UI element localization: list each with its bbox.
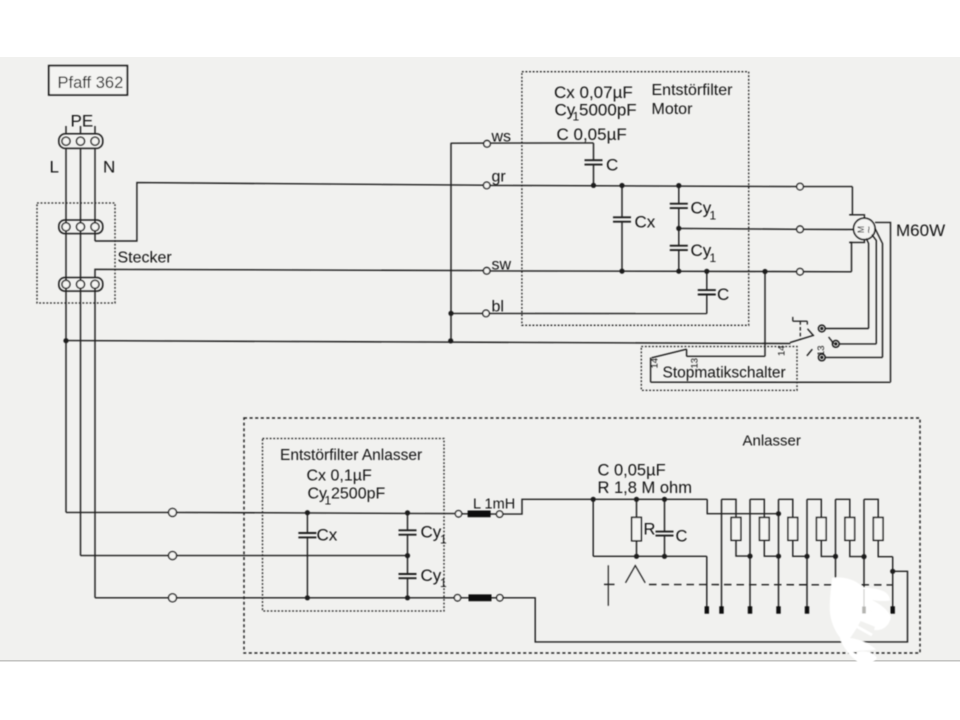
contact terminal 5 [833, 606, 837, 613]
capacitor Cx Anlasser [298, 513, 337, 598]
label Entstoerfilter Motor values [554, 83, 637, 144]
junction C top [662, 497, 667, 502]
wire row2 to Cy1 midpoint [177, 555, 408, 557]
wire sw feed from lower plug contact [95, 269, 484, 277]
junction C bottom [662, 554, 667, 559]
capacitor Cy1 lower (mid-sw) [670, 228, 717, 271]
inductor L 1mH [455, 496, 515, 517]
svg-text:Motor: Motor [652, 101, 694, 118]
wire ws-bl tie (vertical) [450, 143, 452, 341]
capacitor Cy1 Anlasser upper [399, 513, 448, 556]
wire tap 3 [778, 499, 780, 607]
contact bullseye 3 with label 13 [816, 345, 883, 360]
svg-text:ws: ws [491, 129, 512, 146]
wire tap 5 [835, 499, 837, 607]
svg-text:Pfaff 362: Pfaff 362 [58, 74, 124, 92]
wire bl [451, 312, 707, 314]
label Entstoerfilter Anlasser [280, 447, 422, 508]
wire motor lead 2 [872, 235, 877, 344]
plug contact strip lower [59, 278, 103, 292]
wiper arm [608, 565, 645, 606]
label Pfaff 362 [49, 66, 128, 95]
node row1 connector [169, 508, 177, 516]
node PE (mains terminal strip) [50, 112, 116, 177]
node sw [483, 257, 511, 274]
wire L feed to switch blade [66, 341, 790, 344]
wire gr feed to motor filter [490, 185, 853, 186]
svg-text:5000pF: 5000pF [579, 101, 637, 120]
wire sw drop [764, 272, 766, 357]
switch blade speed contact 2 [829, 337, 834, 344]
svg-text:Entstörfilter Anlasser: Entstörfilter Anlasser [280, 447, 422, 464]
node row3 connector [169, 594, 177, 602]
node bl [483, 298, 504, 316]
wire motor lead 4 (terminal 14) [875, 222, 891, 382]
capacitor Cy1 upper (gr-mid) [670, 186, 717, 229]
wire mid tap to motor [679, 228, 854, 229]
svg-text:Stopmatikschalter: Stopmatikschalter [663, 365, 786, 382]
wire motor lead 1 [866, 238, 868, 328]
wire row1 from L [66, 511, 169, 513]
wire RC bottom to contact 0 [706, 556, 708, 607]
node motor connector sw [797, 268, 804, 275]
wire sw through filter to motor [490, 270, 852, 273]
plug contact strip upper [59, 220, 103, 234]
capacitor C parallel [656, 499, 688, 556]
wire row1 to inductor [177, 512, 455, 513]
wire RC bottom [593, 555, 707, 557]
svg-text:1: 1 [440, 576, 447, 590]
contact terminal 6 [862, 606, 866, 613]
wire contact 13 to sw drop [687, 355, 765, 357]
svg-text:1: 1 [440, 532, 447, 546]
junction R bottom [634, 554, 639, 559]
node motor connector gr [797, 183, 804, 190]
resistor bank R5 [836, 499, 865, 556]
svg-text:1: 1 [710, 209, 717, 223]
junction R4 to tap5 [833, 554, 838, 559]
junction R3 to tap4 [804, 554, 809, 559]
svg-text:Cy: Cy [421, 566, 442, 585]
svg-text:PE: PE [71, 112, 94, 131]
svg-text:C: C [606, 155, 618, 174]
wire row1 jog up to RC line [503, 499, 707, 514]
svg-text:R: R [644, 521, 656, 539]
svg-text:bl: bl [492, 298, 504, 315]
switch blade speed contact 1 [790, 329, 813, 343]
contact terminal 0 [705, 606, 709, 613]
resistor bank R6 [864, 499, 893, 556]
svg-text:1: 1 [710, 251, 717, 265]
capacitor Cx (gr-sw) [613, 186, 656, 272]
wire PE (earth, down the left side) [80, 148, 82, 555]
wire row3 from N [94, 289, 96, 598]
junction Cx on sw [619, 269, 624, 274]
junction R1 to tap2 [747, 554, 752, 559]
wire N jog to gr feed [95, 183, 484, 241]
wire tap 7 [892, 557, 894, 607]
wire row3 return path [503, 571, 908, 642]
junction R5 to tap6 [861, 554, 866, 559]
svg-text:~: ~ [861, 226, 876, 234]
node gr [483, 168, 506, 188]
svg-text:Cx 0,1µF: Cx 0,1µF [307, 468, 372, 485]
junction return line [890, 569, 895, 574]
junction bl tap [448, 311, 453, 316]
svg-text:C: C [717, 285, 729, 304]
node row2 connector [169, 552, 177, 560]
wire motor lead 3 [875, 228, 883, 358]
svg-text:13: 13 [690, 358, 701, 369]
push button actuator [793, 317, 808, 339]
connector Stecker (dashed outline) [37, 203, 115, 303]
svg-text:C 0,05µF: C 0,05µF [557, 125, 627, 144]
junction Cy1 lower on sw [676, 269, 681, 274]
wire N (neutral from strip into plug) [94, 148, 96, 241]
svg-text:2500pF: 2500pF [331, 486, 385, 503]
capacitor C (ws-gr) [585, 143, 619, 185]
contact terminal 4 [805, 606, 809, 613]
junction C on gr [591, 183, 596, 188]
svg-text:14: 14 [650, 358, 661, 369]
wire ws [451, 142, 594, 144]
wire tap 1 [721, 499, 723, 607]
resistor bank R1 [722, 499, 751, 556]
Entstoerfilter Anlasser box (dashed) [263, 439, 445, 612]
junction R2 to tap3 [776, 554, 781, 559]
svg-text:L 1mH: L 1mH [473, 496, 515, 512]
svg-text:gr: gr [492, 168, 507, 185]
switch Stopmatik contact 13 [687, 349, 701, 368]
svg-text:C 0,05µF: C 0,05µF [598, 462, 666, 480]
node ws [484, 129, 511, 148]
inductor row3 [454, 594, 503, 601]
junction on wire L [63, 338, 68, 343]
wire tap 4 [806, 499, 808, 607]
svg-text:sw: sw [492, 257, 512, 274]
svg-text:R 1,8 M ohm: R 1,8 M ohm [598, 479, 692, 497]
watermark dolphin [830, 578, 891, 669]
wire tap 6 [863, 499, 865, 607]
Stopmatikschalter box (dashed) [641, 347, 797, 391]
wire sw elbow into motor [849, 240, 864, 272]
junction Cx on gr [619, 183, 624, 188]
label C 0,05uF / R 1,8 M ohm [598, 462, 692, 498]
junction Cx top [305, 510, 310, 515]
svg-text:Cy: Cy [421, 522, 442, 541]
Anlasser box (dashed) [244, 418, 920, 653]
contact terminal 2 [748, 606, 752, 613]
node motor connector mid [797, 226, 804, 233]
junction Cy1 on gr [676, 183, 681, 188]
switch Stopmatik terminal 14 [650, 358, 661, 383]
contact bullseye 2 [832, 341, 876, 348]
wire row3 to inductor 2 [177, 597, 455, 599]
junction feed at tap 3 [776, 511, 781, 516]
svg-text:13: 13 [816, 345, 827, 356]
junction L line tap [448, 338, 453, 343]
wire terminal 14 line to motor [651, 345, 891, 382]
wire gr elbow into motor [849, 187, 864, 219]
junction Cy1 lower bottom [405, 595, 410, 600]
svg-text:N: N [103, 157, 115, 176]
svg-text:Anlasser: Anlasser [743, 433, 801, 450]
wire feed step down to tap 3 [707, 499, 778, 513]
wire tap 2 [749, 499, 751, 607]
svg-text:Entstörfilter: Entstörfilter [652, 82, 734, 99]
svg-text:M60W: M60W [896, 221, 945, 240]
svg-text:Cx: Cx [317, 526, 338, 545]
resistor bank R2 [750, 499, 779, 556]
svg-text:Cx 0,07µF: Cx 0,07µF [554, 83, 633, 102]
wire row2 from PE [81, 555, 169, 557]
contact terminal 3 [776, 606, 780, 613]
wiper travel dashed line [604, 583, 615, 585]
capacitor C (sw-bl) [698, 271, 729, 313]
junction Cy1 midpoint [676, 226, 681, 231]
wire RC left side [592, 499, 594, 556]
resistor bank R4 [807, 499, 836, 556]
capacitor Cy1 Anlasser lower [399, 556, 448, 598]
junction C2 on sw [704, 269, 709, 274]
junction RC top left [591, 497, 596, 502]
label Entstoerfilter Motor title [652, 82, 734, 118]
junction Cx bottom [305, 595, 310, 600]
switch Stopmatik blade [652, 349, 687, 358]
resistor bank R3 [779, 499, 808, 556]
svg-text:Stecker: Stecker [118, 249, 173, 266]
contact terminal 7 [891, 606, 895, 613]
Entstoerfilter Motor box (dashed) [522, 72, 749, 326]
svg-text:Cx: Cx [635, 212, 656, 231]
svg-text:14: 14 [777, 345, 788, 356]
junction R top [634, 497, 639, 502]
watermark shading slits [863, 589, 865, 612]
svg-text:L: L [50, 157, 59, 176]
resistor R [632, 499, 656, 556]
motor M60W [854, 218, 946, 240]
junction sw drop [762, 269, 767, 274]
contact bullseye 1 [818, 325, 868, 332]
junction Cy1 mid row2 [405, 553, 410, 558]
junction Cy1 top [405, 510, 410, 515]
svg-text:C: C [676, 527, 688, 545]
contact terminal 1 [719, 606, 723, 613]
switch blade speed contact 3 [807, 349, 812, 356]
wire L (phase, down the left side) [65, 148, 67, 512]
